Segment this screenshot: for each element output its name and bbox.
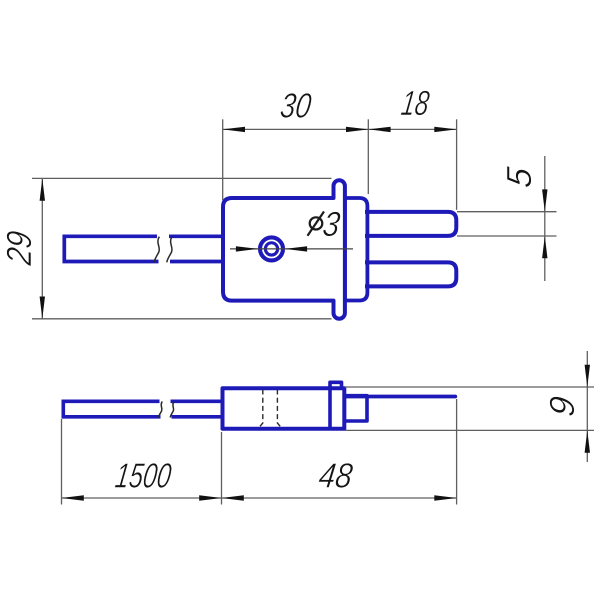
pin 1 (upper, top view) bbox=[365, 212, 456, 236]
svg-text:48: 48 bbox=[316, 455, 355, 495]
arrowheads phi3 bbox=[236, 246, 307, 251]
svg-text:18: 18 bbox=[399, 84, 432, 123]
dimension 1500/48 line bbox=[62, 399, 457, 505]
arrowheads 5 bbox=[542, 189, 547, 258]
dimension 29 bbox=[32, 178, 332, 318]
latch tab (side view) bbox=[330, 382, 342, 388]
dimension phi3 leader line bbox=[230, 248, 353, 250]
plug body with flange (top view) bbox=[223, 180, 345, 318]
wire: cable left segment (top view) bbox=[64, 236, 158, 261]
arrowheads 1500/48 bbox=[62, 495, 457, 500]
cable break lines (top view) bbox=[154, 237, 172, 263]
wire: cable right segment (side view) bbox=[171, 401, 224, 417]
arrowheads 9 bbox=[585, 365, 590, 453]
flange edge line (side view) bbox=[328, 388, 332, 429]
dimension 5 bbox=[457, 156, 557, 281]
arrowheads 29 bbox=[40, 178, 45, 318]
wire: cable left segment (side view) bbox=[63, 401, 160, 417]
neck block (side view) bbox=[344, 396, 367, 421]
arrowheads 30/18 bbox=[223, 127, 457, 132]
dimension 9 bbox=[345, 351, 594, 462]
neck block (top view) bbox=[345, 198, 368, 301]
wire: cable right segment (top view) bbox=[169, 236, 224, 261]
hole outer circle bbox=[260, 237, 283, 260]
plug body (side view) bbox=[223, 388, 345, 429]
pin line (side view) bbox=[344, 395, 455, 399]
pin 2 (lower, top view) bbox=[365, 262, 456, 286]
cable break lines (side view) bbox=[159, 402, 175, 418]
hidden hole dashed lines (side view) bbox=[258, 390, 283, 430]
svg-text:29: 29 bbox=[0, 228, 38, 268]
hole inner circle bbox=[265, 243, 277, 255]
svg-text:1500: 1500 bbox=[113, 457, 174, 496]
dimension 30/18 line bbox=[223, 119, 457, 210]
diameter symbol bbox=[308, 212, 325, 236]
svg-text:30: 30 bbox=[278, 85, 314, 125]
